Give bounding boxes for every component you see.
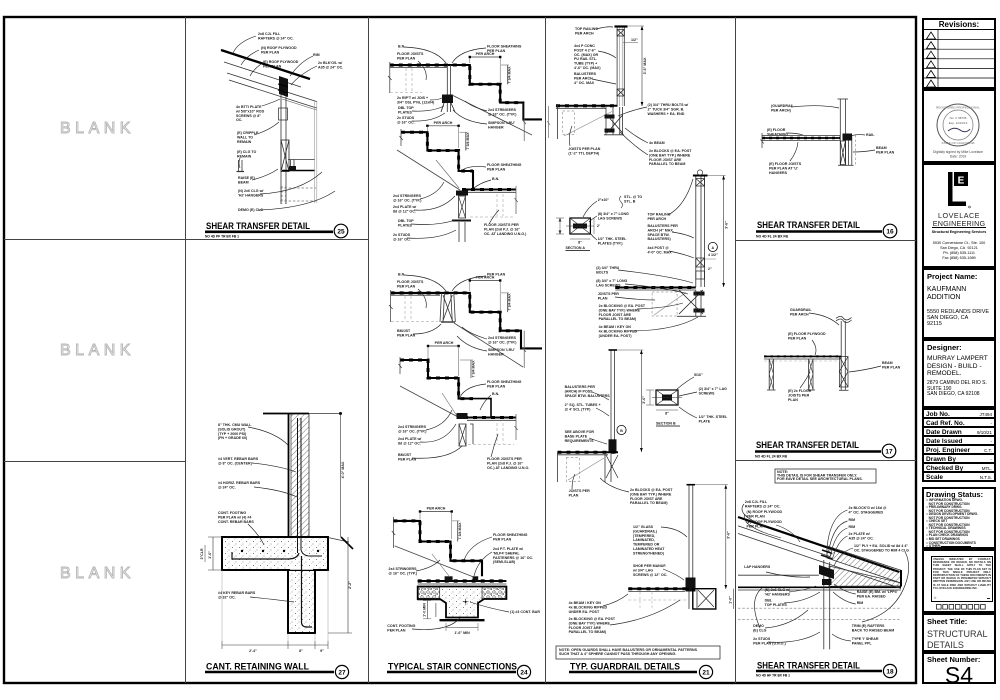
G4 riser dim	[470, 360, 472, 378]
svg-text:2': 2'	[597, 224, 600, 228]
svg-text:24: 24	[520, 670, 528, 677]
svg-text:2x BLOCKS @ EA. POST(ONE BAY T: 2x BLOCKS @ EA. POST(ONE BAY TYP.) WHERE…	[649, 149, 692, 166]
G5 rebar dot	[463, 599, 469, 605]
G5 stringer diagonals	[395, 546, 475, 578]
hatched sheathing wedge upper	[827, 546, 901, 583]
left break	[761, 133, 764, 148]
wedge right closing edge	[900, 570, 902, 587]
small left stud	[238, 160, 240, 171]
G4 joist dashes	[496, 423, 498, 444]
svg-text:4 1/2": 4 1/2"	[708, 253, 718, 257]
svg-text:(N) ROOF PLYWOODPER PLAN: (N) ROOF PLYWOODPER PLAN	[747, 510, 783, 518]
svg-text:DBL TOPPLATES: DBL TOPPLATES	[398, 106, 414, 114]
svg-text:(E) ROOF PLYWOODPER PLAN: (E) ROOF PLYWOODPER PLAN	[747, 520, 783, 528]
svg-text:NO 4D HF TR BX FB 1: NO 4D HF TR BX FB 1	[756, 674, 790, 678]
svg-text:2x4 STRINGERS@ 16" OC. (TYP.): 2x4 STRINGERS@ 16" OC. (TYP.)	[393, 194, 422, 202]
svg-text:(8) 3/4" x 7" LONGLAG SCREWS: (8) 3/4" x 7" LONGLAG SCREWS	[596, 279, 627, 287]
G1 connector blob	[442, 95, 453, 104]
svg-text:Exp. 12/31/19: Exp. 12/31/19	[949, 121, 968, 125]
svg-text:SEE ABOVE FORBASE PLATEREQUIRE: SEE ABOVE FORBASE PLATEREQUIREMENTS	[565, 430, 595, 443]
svg-text:3'-6": 3'-6"	[642, 396, 646, 404]
G2 dim per arch	[427, 125, 458, 127]
C3 circled B	[617, 425, 626, 434]
G4 stringer diagonals	[400, 386, 458, 417]
G2 riser dim	[465, 132, 467, 150]
C4 right dim	[733, 589, 735, 609]
svg-text:SECTION B: SECTION B	[656, 422, 676, 426]
svg-text:San Diego, CA 92121: San Diego, CA 92121	[940, 246, 978, 250]
svg-text:DBL TOPPLATES: DBL TOPPLATES	[398, 219, 414, 227]
svg-text:(2) 3/4" THRUBOLTS: (2) 3/4" THRUBOLTS	[596, 266, 619, 274]
svg-text:8" THK. CMU WALL(SOLID GROUT)(: 8" THK. CMU WALL(SOLID GROUT)(TYP + 2000…	[218, 423, 252, 440]
bottom dim line	[222, 644, 328, 646]
svg-text:B.N.: B.N.	[492, 177, 499, 181]
seal box	[922, 89, 996, 163]
C3 base shoe	[609, 439, 617, 452]
big left arc leader	[766, 572, 810, 577]
floor plywood lines	[764, 355, 841, 357]
C1 post	[616, 27, 618, 106]
guardrail post	[840, 321, 842, 390]
svg-text:(1) #4 CONT. BAR: (1) #4 CONT. BAR	[510, 610, 540, 614]
svg-text:(N) 2x6 CLG w/'H2' HANGERS: (N) 2x6 CLG w/'H2' HANGERS	[765, 588, 791, 596]
svg-text:2x BLOCKING @ EA. POST(ONE BAY: 2x BLOCKING @ EA. POST(ONE BAY TYP.) WHE…	[569, 617, 616, 634]
C2 post	[695, 176, 697, 287]
G3 x-post	[440, 293, 455, 322]
G1 joist dashes	[405, 68, 407, 91]
svg-text:Fax (858) 535-1989: Fax (858) 535-1989	[942, 256, 975, 260]
C2 x-blocks	[696, 179, 705, 187]
footing stem	[288, 570, 315, 633]
right swoosh leader	[862, 552, 909, 622]
svg-text:SHEAR TRANSFER DETAIL: SHEAR TRANSFER DETAIL	[757, 220, 860, 230]
C4 height dim	[725, 485, 727, 589]
disclaimer box	[922, 549, 996, 613]
svg-text:(E) CLG TOREMAIN: (E) CLG TOREMAIN	[237, 150, 257, 158]
C4 note box	[556, 646, 720, 659]
svg-text:(E) ROOF PLYWOODPER PLAN: (E) ROOF PLYWOODPER PLAN	[263, 60, 299, 68]
joist post left	[768, 359, 770, 390]
roof slope line 3	[738, 534, 830, 565]
svg-text:7 3/4 MAX: 7 3/4 MAX	[508, 66, 512, 84]
svg-text:8": 8"	[299, 649, 303, 653]
G1 stringer diagonal	[452, 95, 532, 135]
svg-text:SECTION A: SECTION A	[566, 246, 586, 250]
svg-text:7 3/4 MAX: 7 3/4 MAX	[508, 293, 512, 311]
svg-text:17: 17	[885, 449, 893, 456]
svg-text:SIMPSON 'LRU'HANGER: SIMPSON 'LRU'HANGER	[488, 348, 515, 356]
svg-text:Structural Engineering Service: Structural Engineering Services	[932, 230, 987, 234]
svg-text:4x4 POST @4'-0" OC. MAX: 4x4 POST @4'-0" OC. MAX	[648, 246, 673, 254]
sheet number box	[922, 652, 996, 684]
svg-text:4'-0" MAX: 4'-0" MAX	[341, 461, 345, 478]
svg-text:(E) 2x FLOORJOISTS PERPLAN: (E) 2x FLOORJOISTS PERPLAN	[788, 389, 812, 402]
svg-text:FLOOR JOISTSPER PLAN: FLOOR JOISTSPER PLAN	[397, 280, 424, 288]
C4 below dashed	[628, 599, 688, 601]
svg-text:9": 9"	[320, 649, 324, 653]
svg-text:(E) FLOORSHEATHING: (E) FLOORSHEATHING	[767, 128, 788, 136]
G2 post below landing	[459, 196, 466, 218]
svg-text:PER PLAN: PER PLAN	[487, 273, 506, 277]
svg-text:2x8 CJL FILLRAFTERS @ 24" OC.: 2x8 CJL FILLRAFTERS @ 24" OC.	[745, 500, 781, 508]
svg-text:FLOOR JOISTSPER PLAN: FLOOR JOISTSPER PLAN	[397, 52, 424, 60]
roof top chord thick diagonal	[221, 50, 310, 79]
svg-text:RAIL: RAIL	[866, 133, 875, 137]
svg-text:NOTE:THIS DETAIL IS FOR SHEAR: NOTE:THIS DETAIL IS FOR SHEAR TRANSFER O…	[777, 470, 863, 481]
title detail 21	[569, 662, 713, 679]
right dim 4'-0 max	[340, 414, 342, 538]
SECTION A dims	[556, 218, 564, 234]
svg-text:LAP HANGERS: LAP HANGERS	[744, 565, 771, 569]
rebar hook right	[301, 550, 322, 556]
dashed plates below floor	[280, 187, 316, 189]
svg-text:2x4 STRINGERS@ 16" OC. (TYP.): 2x4 STRINGERS@ 16" OC. (TYP.)	[488, 108, 517, 116]
svg-text:5930 Cornerstone Ct., Ste. 100: 5930 Cornerstone Ct., Ste. 100	[933, 241, 986, 245]
C1 half-inch tick	[623, 42, 638, 44]
C2 deck	[615, 287, 696, 289]
svg-text:BLANK: BLANK	[60, 565, 135, 582]
svg-text:2x4 STRINGERS@ 16" OC. (TYP.): 2x4 STRINGERS@ 16" OC. (TYP.)	[488, 336, 517, 344]
G4 right break	[515, 414, 518, 440]
logo box lovelace engineering	[922, 163, 996, 268]
svg-text:2x STUDSPER PLAN (U.N.O.): 2x STUDSPER PLAN (U.N.O.)	[753, 637, 786, 645]
svg-text:21: 21	[702, 670, 710, 677]
horizontal divider col4 y240	[736, 240, 917, 242]
svg-text:RIM: RIM	[313, 53, 320, 57]
svg-text:BLANK: BLANK	[60, 120, 135, 137]
title detail 27	[205, 662, 349, 679]
svg-text:CANT. RETAINING WALL: CANT. RETAINING WALL	[206, 662, 309, 672]
G4 left break	[399, 357, 402, 374]
svg-text:FLOOR JOISTS PERPLAN (2x8 P.J.: FLOOR JOISTS PERPLAN (2x8 P.J. @ 16"OC. …	[484, 223, 527, 236]
x-brace rect on post	[281, 140, 289, 172]
wall body hatched	[291, 413, 309, 537]
svg-text:SHOE PER MANUF.w/ 3/4" LAGSCRE: SHOE PER MANUF.w/ 3/4" LAGSCREWS @ 12" O…	[632, 564, 667, 577]
svg-text:JOISTS PER PLAN(1'-2" TTL DEPT: JOISTS PER PLAN(1'-2" TTL DEPTH)	[568, 147, 600, 155]
G2 left break	[400, 129, 403, 146]
C3 deck	[558, 451, 619, 453]
svg-text:A: A	[711, 246, 714, 250]
vertical divider x185	[185, 17, 187, 683]
G5 left break	[392, 517, 395, 548]
C1 x-blocks	[617, 30, 624, 37]
G5 concrete T footing	[418, 587, 507, 618]
svg-text:2x BLOCKING @ EA. POST(ONE BAY: 2x BLOCKING @ EA. POST(ONE BAY TYP.) WHE…	[599, 304, 646, 321]
C4 fascia rim	[693, 589, 716, 609]
C1 top cap	[615, 25, 628, 27]
post double line	[280, 77, 282, 204]
svg-text:PER ARCH: PER ARCH	[427, 507, 446, 511]
rebar vertical in wall	[298, 418, 302, 553]
rim joist	[848, 135, 850, 165]
svg-text:RAISE (E)BEAM: RAISE (E)BEAM	[238, 176, 256, 184]
svg-text:Ph. (858) 535-1111: Ph. (858) 535-1111	[943, 251, 975, 255]
right dim lower	[347, 537, 349, 633]
project name box	[922, 268, 996, 339]
svg-text:CONT. FOOTINGPER PLAN: CONT. FOOTINGPER PLAN	[387, 624, 415, 632]
G2 stringer diagonals	[397, 150, 460, 190]
G5 bottom dim	[446, 627, 478, 629]
svg-text:(E) FLOOR JOISTSPER PLAN AT 'U: (E) FLOOR JOISTSPER PLAN AT 'U'HANGERS	[769, 162, 802, 175]
G2 steps thick path	[401, 132, 473, 189]
svg-text:FLOOR SHEATHINGPER PLAN: FLOOR SHEATHINGPER PLAN	[487, 380, 522, 388]
svg-text:FLOOR SHEATHINGPER PLAN: FLOOR SHEATHINGPER PLAN	[487, 163, 522, 171]
rebar hook left	[232, 552, 299, 559]
wall top line	[263, 413, 309, 415]
G4 steps thick path	[400, 360, 473, 399]
post x-brace	[839, 357, 848, 388]
C2 bolts below deck	[694, 292, 705, 296]
G3 floor+steps thick path	[391, 293, 542, 349]
svg-text:(E) CRIPPLEWALL TOREMAIN: (E) CRIPPLEWALL TOREMAIN	[237, 131, 259, 144]
svg-text:(N) 2x6 CLG w/'H2' HANGERS: (N) 2x6 CLG w/'H2' HANGERS	[238, 189, 264, 197]
svg-text:SIMPSON 'LRU'HANGER: SIMPSON 'LRU'HANGER	[488, 121, 515, 129]
svg-text:RIM: RIM	[849, 518, 856, 522]
svg-text:RIM: RIM	[849, 525, 856, 529]
floor double thick	[762, 137, 840, 139]
svg-text:1/2" THK. STEELPLATE: 1/2" THK. STEELPLATE	[699, 415, 728, 423]
svg-text:NO 4D PF TR BX FB 1: NO 4D PF TR BX FB 1	[205, 235, 239, 239]
svg-text:B.N.: B.N.	[398, 273, 405, 277]
C1 deck line	[556, 105, 618, 107]
svg-text:7 3/4 MAX: 7 3/4 MAX	[458, 522, 462, 540]
svg-text:JOISTS PERPLAN: JOISTS PERPLAN	[598, 292, 620, 300]
svg-text:2x BLOCK'G w/ 16d @4" OC. STAG: 2x BLOCK'G w/ 16d @4" OC. STAGGERED	[849, 506, 887, 514]
G5 gravel right	[482, 587, 506, 600]
svg-text:1/2": 1/2"	[631, 38, 638, 42]
post top break mark	[836, 319, 852, 323]
svg-text:8": 8"	[665, 412, 669, 416]
footing right toe line	[328, 538, 349, 543]
stem rebar	[302, 556, 313, 627]
svg-text:1'-0": 1'-0"	[729, 596, 733, 604]
left dim	[212, 537, 214, 570]
G3 riser dim	[506, 293, 508, 312]
horizontal divider col4 y460	[736, 460, 917, 462]
svg-text:(GUARDRAILPER ARCH): (GUARDRAILPER ARCH)	[771, 104, 795, 112]
svg-text:(E) FLOOR PLYWOODPER PLAN: (E) FLOOR PLYWOODPER PLAN	[788, 332, 826, 340]
svg-text:1/2" GLASS(GUARDRAIL)(TEMPERED: 1/2" GLASS(GUARDRAIL)(TEMPERED,LAMINATED…	[633, 525, 665, 555]
svg-text:PER ARCH: PER ARCH	[434, 121, 453, 125]
svg-text:(N) ROOF PLYWOODPER PLAN: (N) ROOF PLYWOODPER PLAN	[261, 46, 297, 54]
svg-text:NOTE: OPEN GUARDS SHALL HAVE B: NOTE: OPEN GUARDS SHALL HAVE BALUSTERS O…	[559, 648, 698, 656]
C4 glass	[688, 485, 690, 609]
ridge blocking dark blob	[279, 76, 288, 97]
svg-text:1'-6": 1'-6"	[208, 551, 212, 559]
svg-text:BALUSTERSPER ARCH4" OC. MAX: BALUSTERSPER ARCH4" OC. MAX	[574, 72, 597, 85]
svg-text:2x4 P.T. PLATE w/'MLP4' SHEPAL: 2x4 P.T. PLATE w/'MLP4' SHEPALFASTENERS …	[493, 547, 533, 564]
sheet title box	[922, 613, 996, 652]
G3 far right break dim	[523, 331, 527, 368]
svg-text:SHEAR TRANSFER DETAIL: SHEAR TRANSFER DETAIL	[757, 661, 860, 671]
C3 glass	[610, 350, 612, 452]
svg-text:2x RIP'T w/ JOIS +3/4" OSL P'N: 2x RIP'T w/ JOIS +3/4" OSL P'NL (12x04)	[397, 96, 435, 104]
rafter line 3	[227, 73, 317, 102]
svg-text:4x BTTI PLATEw/ 5/8"x10" RODSC: 4x BTTI PLATEw/ 5/8"x10" RODSCREWS @ 8"O…	[235, 105, 265, 122]
svg-text:ENGINEERING: ENGINEERING	[933, 219, 986, 228]
svg-text:TRIM (E) RAFTERSBACK TO RAISED: TRIM (E) RAFTERSBACK TO RAISED BEAM	[852, 624, 894, 632]
C1 left edge	[557, 105, 559, 139]
title detail 17	[755, 440, 896, 459]
svg-text:2'-2": 2'-2"	[348, 581, 352, 589]
svg-text:16: 16	[886, 229, 894, 236]
svg-text:SHEAR TRANSFER DETAIL: SHEAR TRANSFER DETAIL	[756, 440, 859, 450]
guardrail post	[839, 99, 841, 165]
svg-text:2'-4": 2'-4"	[249, 649, 257, 653]
svg-text:BM/JSTPER PLAN: BM/JSTPER PLAN	[398, 453, 417, 461]
title detail 24	[387, 662, 531, 679]
G5 sill plate assembly	[418, 580, 507, 582]
vertical divider x370	[368, 17, 370, 683]
svg-text:NO 4D FL 24 BX FB: NO 4D FL 24 BX FB	[755, 455, 788, 459]
svg-text:BALUSTERS PERARCH (4" MAX.SPAC: BALUSTERS PERARCH (4" MAX.SPACE BTW.BALU…	[648, 224, 679, 241]
svg-text:1/2" PLY + EA. SOLID w/ 8d 4 4: 1/2" PLY + EA. SOLID w/ 8d 4 4"OC. STAGG…	[854, 544, 909, 552]
svg-text:2x4 STRINGERS@ 16" OC. (TYP.): 2x4 STRINGERS@ 16" OC. (TYP.)	[389, 567, 418, 575]
svg-text:2x4 STRINGERS@ 16" OC. (TYP.): 2x4 STRINGERS@ 16" OC. (TYP.)	[398, 425, 427, 433]
wall faces	[288, 413, 290, 537]
C4 deck	[628, 588, 689, 590]
dashed plates	[738, 607, 901, 609]
G1 riser dim	[506, 65, 508, 84]
svg-text:1'-6" MIN: 1'-6" MIN	[454, 631, 470, 635]
title detail 25	[205, 221, 348, 239]
C2 height dim	[723, 176, 725, 288]
svg-text:B.N.: B.N.	[492, 392, 499, 396]
note box above	[775, 469, 876, 483]
svg-text:2x STUDS@ 16" OC.: 2x STUDS@ 16" OC.	[397, 116, 415, 124]
svg-text:TYPICAL STAIR CONNECTIONS: TYPICAL STAIR CONNECTIONS	[388, 662, 517, 672]
svg-text:TOP RAILINGPER ARCH: TOP RAILINGPER ARCH	[648, 213, 671, 221]
svg-text:TYPE 'I' SHEARPANEL PPL: TYPE 'I' SHEARPANEL PPL	[852, 637, 879, 645]
svg-text:(2) 3/4" THRU BOLTS w/2" TUCK: (2) 3/4" THRU BOLTS w/2" TUCK 3/4" SGR. …	[648, 103, 689, 116]
svg-text:3"CLR: 3"CLR	[200, 548, 204, 559]
job info rows	[922, 408, 996, 482]
svg-text:2" SQ. STL. TUBES +@ 4' SCL (T: 2" SQ. STL. TUBES +@ 4' SCL (TYP)	[565, 403, 601, 411]
x-brace below floor	[840, 141, 845, 165]
svg-text:STL. @ TOSTL. B: STL. @ TOSTL. B	[624, 195, 642, 203]
svg-text:FLOOR SHEATHINGPER PLAN: FLOOR SHEATHINGPER PLAN	[487, 45, 522, 53]
svg-text:RIM: RIM	[857, 601, 864, 605]
svg-text:No. C 58736: No. C 58736	[950, 116, 967, 120]
G2 landing floor	[462, 188, 516, 190]
G4 x-post below landing	[459, 424, 466, 446]
svg-text:7 3/4 MAX: 7 3/4 MAX	[466, 132, 470, 150]
svg-text:FLOOR SHEATHINGPER PLAN: FLOOR SHEATHINGPER PLAN	[493, 533, 528, 541]
svg-text:#4 KEY REBAR BARS@ 32" OC.: #4 KEY REBAR BARS@ 32" OC.	[218, 591, 256, 599]
grade line right	[309, 413, 341, 415]
svg-text:BM/JSTPER PLAN: BM/JSTPER PLAN	[397, 329, 416, 337]
svg-text:4x4 P CONCPOST 4 2'-6"OC. (MAX: 4x4 P CONCPOST 4 2'-6"OC. (MAX) ORPU RAI…	[574, 44, 601, 70]
drawing status box	[922, 487, 996, 549]
roof sheathing line 2	[224, 62, 301, 87]
G3 left break	[389, 290, 393, 322]
svg-text:BEAMPER PLAN: BEAMPER PLAN	[882, 361, 901, 369]
svg-text:CONT. FOOTINGPER PLAN w/ (4) #: CONT. FOOTINGPER PLAN w/ (4) #4CONT. REB…	[218, 511, 254, 524]
svg-text:BEAMPER PLAN: BEAMPER PLAN	[876, 146, 895, 154]
ceiling line left of post	[738, 574, 819, 576]
svg-text:BALUSTERS PER(ARCH) IF POSS.SP: BALUSTERS PER(ARCH) IF POSS.SPACE BTW. B…	[565, 385, 611, 398]
svg-text:2x STUDS@ 16" OC.: 2x STUDS@ 16" OC.	[393, 233, 411, 241]
svg-text:3'-6": 3'-6"	[727, 531, 731, 539]
G2 joist dashes right	[496, 194, 498, 216]
svg-text:5/16": 5/16"	[694, 373, 703, 377]
left small dim 2	[204, 545, 206, 562]
G2 right break	[515, 186, 518, 214]
svg-text:DBLTOP PLATES: DBLTOP PLATES	[765, 599, 788, 607]
G1 dim per arch	[470, 56, 500, 58]
svg-text:(2) 3/4" x 7" LAGSCREWS: (2) 3/4" x 7" LAGSCREWS	[699, 387, 728, 395]
svg-text:BLANK: BLANK	[60, 342, 135, 359]
svg-text:E: E	[958, 176, 965, 187]
svg-text:Date: 2019: Date: 2019	[950, 155, 967, 159]
G5 left dims	[426, 601, 428, 619]
svg-text:25: 25	[337, 229, 345, 236]
svg-text:2"x10": 2"x10"	[598, 198, 610, 202]
C2 circled A	[708, 242, 717, 251]
svg-text:NO 4D FL 24 BX FB: NO 4D FL 24 BX FB	[756, 235, 789, 239]
svg-text:3'-6": 3'-6"	[724, 221, 728, 229]
svg-text:FLOOR JOISTS PERPLAN (2x8 P.J.: FLOOR JOISTS PERPLAN (2x8 P.J. @ 16"OC.)…	[487, 457, 529, 470]
G5 steps thick path	[393, 521, 482, 576]
svg-text:4x BEAM: 4x BEAM	[649, 141, 665, 145]
C1 joists dashed	[563, 111, 575, 135]
rail connection blob	[843, 134, 853, 141]
rebar dots	[241, 550, 243, 552]
C4 shoe	[686, 578, 696, 592]
svg-text:TOP RAILINGPER ARCH: TOP RAILINGPER ARCH	[575, 27, 598, 35]
G3 stringer diagonal	[454, 323, 523, 367]
svg-text:RAISE (E) BM. w/ 'LPP4'PER EA.: RAISE (E) BM. w/ 'LPP4'PER EA. RAISED	[857, 590, 898, 598]
G5 gravel left	[418, 587, 440, 601]
svg-text:DEMO(E) CLG: DEMO(E) CLG	[753, 624, 767, 632]
revisions table	[922, 18, 996, 89]
svg-text:JOISTS PERPLAN: JOISTS PERPLAN	[569, 489, 591, 497]
svg-text:B: B	[620, 429, 623, 433]
roof slope line 1 thick	[738, 517, 899, 572]
svg-text:2x8 CJL FILLRAFTERS @ 24" OC.: 2x8 CJL FILLRAFTERS @ 24" OC.	[258, 32, 294, 40]
svg-text:3'-6" MAX: 3'-6" MAX	[643, 57, 647, 74]
svg-text:Digitally signed by Mike Lovel: Digitally signed by Mike Lovelace	[933, 150, 983, 154]
C1 height dim	[641, 26, 643, 106]
svg-text:TYP. GUARDRAIL DETAILS: TYP. GUARDRAIL DETAILS	[570, 662, 680, 672]
C3 joists dashed	[566, 458, 579, 482]
joist post right	[808, 359, 810, 390]
lap hangers plate line	[738, 586, 901, 588]
svg-text:B.N.: B.N.	[398, 45, 405, 49]
svg-text:8": 8"	[578, 241, 582, 245]
post bottom tick	[839, 389, 849, 391]
svg-text:1'-0 MIN: 1'-0 MIN	[423, 603, 427, 617]
vertical divider x545	[545, 17, 547, 683]
C3 height dim	[640, 350, 642, 452]
svg-text:7 3/4 MAX: 7 3/4 MAX	[472, 360, 476, 378]
G1 floor underside	[390, 66, 447, 68]
G3 joist dashes	[404, 296, 406, 321]
G5 riser dim	[457, 521, 459, 542]
G1 floor+steps thick path	[390, 65, 542, 119]
hatched wedge lower	[829, 566, 901, 586]
title detail 16	[756, 220, 897, 239]
svg-text:PER ARCH: PER ARCH	[435, 341, 454, 345]
G1 post	[446, 65, 448, 112]
svg-text:2x4 PLATE w/8d @ 12" OC.: 2x4 PLATE w/8d @ 12" OC.	[398, 437, 421, 445]
G5 dim per arch	[420, 511, 452, 513]
vertical divider x735	[735, 17, 737, 683]
C2 cap	[693, 175, 708, 177]
svg-text:REGISTERED PROFESSIONAL: REGISTERED PROFESSIONAL	[936, 106, 980, 110]
C2 below-deck joists	[652, 292, 677, 316]
svg-text:2x4 PLATE w/8d @ 12" OC.: 2x4 PLATE w/8d @ 12" OC.	[393, 205, 416, 213]
